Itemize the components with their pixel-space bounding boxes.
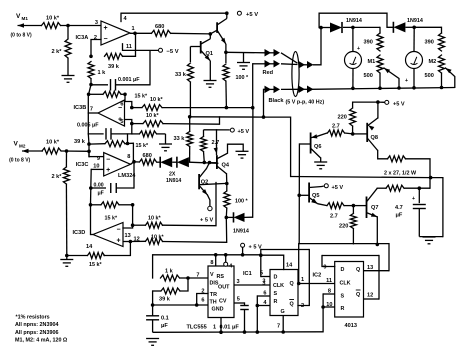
text IC2 Q <box>356 267 360 273</box>
svg-text:2 k*: 2 k* <box>52 49 63 55</box>
svg-text:100 *: 100 * <box>235 199 248 205</box>
text 555 TR <box>210 292 217 298</box>
svg-text:All pnps: 2N3906: All pnps: 2N3906 <box>15 330 58 336</box>
svg-text:−: − <box>106 157 110 164</box>
text Q6 <box>314 144 321 150</box>
svg-text:3: 3 <box>95 20 98 26</box>
text 15k* IC3D <box>105 216 118 222</box>
svg-text:Q: Q <box>290 281 294 287</box>
svg-text:11: 11 <box>126 44 132 50</box>
text Q4 <box>222 163 230 169</box>
wire diodes to node <box>189 161 219 165</box>
capacitor 0.01uF <box>240 303 249 332</box>
pin 13 label <box>125 233 131 239</box>
wire IC3C pin9 <box>87 142 104 156</box>
wire IC3A out <box>130 32 152 34</box>
wire 555 left vert upper <box>152 255 154 278</box>
pin6 wire IC1 <box>257 291 270 297</box>
transistor Q4 <box>210 130 227 184</box>
text 33k upper <box>175 72 187 78</box>
svg-text:S: S <box>341 294 345 300</box>
svg-text:2: 2 <box>201 289 204 295</box>
svg-text:V: V <box>210 272 214 278</box>
svg-text:2.7: 2.7 <box>330 214 338 220</box>
svg-text:TR: TR <box>210 292 217 298</box>
svg-text:0.005 μF: 0.005 μF <box>77 123 99 129</box>
pin9 wire IC2 <box>322 256 335 271</box>
text 555 GND <box>212 307 224 313</box>
transistor Q5 <box>309 183 322 204</box>
svg-text:IC1: IC1 <box>243 271 252 277</box>
wire Q8 collector <box>378 151 388 159</box>
svg-text:IC3B: IC3B <box>74 105 87 111</box>
svg-text:5: 5 <box>237 297 240 303</box>
wire 4.7 bottom <box>419 236 443 238</box>
transistor Q1 <box>201 39 211 61</box>
ic TLC555 box <box>208 266 234 318</box>
text Q5 <box>312 193 319 199</box>
text 14 <box>86 244 93 250</box>
svg-text:33 k: 33 k <box>175 72 187 78</box>
svg-text:CLK: CLK <box>340 281 351 287</box>
svg-text:μF: μF <box>396 213 403 219</box>
wire 39k riser <box>180 278 188 291</box>
wire pin6 rail <box>162 106 255 110</box>
resistor 39k (IC3C fb) <box>89 141 129 147</box>
node IC3A output <box>133 32 137 36</box>
pin1 stub 555 <box>213 318 221 333</box>
text 1N914 M1 <box>346 18 362 24</box>
svg-text:IC3C: IC3C <box>76 162 89 168</box>
text 15k* gnd <box>136 143 149 149</box>
wire pin13 line to corner <box>163 183 217 226</box>
resistor 10k* (pin6) <box>132 105 162 111</box>
text 0.01uF <box>220 325 240 331</box>
resistor 220 (Q8) <box>350 102 378 134</box>
text 2.7 Q8 <box>332 124 340 130</box>
capacitor 4.7uF <box>413 188 426 236</box>
text 500 M1 <box>364 73 373 79</box>
wire 33k chain node <box>188 115 265 119</box>
wire IC3D out <box>89 203 93 235</box>
pin14 wire IC1 <box>261 255 293 269</box>
ground (IC3D) <box>60 256 73 267</box>
pin 5 label <box>120 119 123 125</box>
resistor 680 (IC3C) <box>134 159 157 165</box>
pin1 wire IC1 <box>297 277 335 285</box>
arrows row1 <box>265 49 281 57</box>
wire Q6 emitter to 2.7 <box>317 133 328 137</box>
text 680 IC3C <box>143 153 152 159</box>
text 220 Q7 <box>339 224 348 230</box>
wire red row 1 <box>226 51 266 54</box>
svg-text:39 k: 39 k <box>108 64 120 70</box>
svg-text:1: 1 <box>213 325 216 331</box>
svg-text:15 k*: 15 k* <box>89 262 102 268</box>
svg-text:680: 680 <box>155 24 164 30</box>
svg-text:(0 to 8 V): (0 to 8 V) <box>11 33 32 39</box>
wire Q7 collector <box>377 187 386 189</box>
svg-text:8: 8 <box>328 289 331 295</box>
svg-text:2.7: 2.7 <box>212 140 220 146</box>
svg-text:10: 10 <box>93 164 99 170</box>
text IC1 CLK <box>273 283 284 289</box>
wire IC3B pin6 <box>125 94 134 109</box>
text IC3D <box>73 230 86 236</box>
text 500 M2 <box>425 73 434 79</box>
svg-text:+: + <box>103 25 107 32</box>
wire Q1 base to 33k <box>190 46 200 48</box>
wire Qbar to D loop <box>261 249 310 251</box>
bracket IC1 SR <box>255 296 259 332</box>
svg-text:220: 220 <box>339 224 348 230</box>
svg-text:G: G <box>281 309 285 315</box>
wire Q1riser top <box>0 0 1 1</box>
pin 9 label <box>97 156 100 162</box>
arrows row2 <box>265 60 281 68</box>
pot 500 (M1) <box>377 55 383 90</box>
text 390 M2 <box>425 40 434 46</box>
transistor Q3 (upper) <box>217 19 227 45</box>
pin12 wire IC2 <box>364 293 380 300</box>
text IC2 label <box>313 273 322 279</box>
text 10k* pin12 <box>151 235 164 241</box>
svg-text:0.00: 0.00 <box>94 182 104 188</box>
svg-text:4013: 4013 <box>345 323 357 329</box>
wire Q7 base <box>352 204 367 208</box>
wire VM2 pin9 riser <box>88 151 90 156</box>
ground (red row) <box>237 53 250 70</box>
pot wiper M1 <box>384 68 401 90</box>
text 2X 1N914 <box>166 172 181 185</box>
text IC1 G <box>281 309 285 315</box>
wire Q5 base <box>299 194 309 196</box>
text IC2 S <box>341 294 345 300</box>
wire IC3C pin10 <box>91 169 104 188</box>
svg-text:−5 V: −5 V <box>167 49 179 55</box>
resistor 15k* (IC3B fb) <box>89 91 127 97</box>
pin7 label 555 <box>196 273 199 279</box>
svg-text:*1% resistors: *1% resistors <box>16 314 50 320</box>
wire 39k fb right <box>125 134 133 162</box>
svg-text:Black: Black <box>269 98 285 104</box>
node IC3C out <box>131 160 136 164</box>
svg-text:S: S <box>274 291 278 297</box>
svg-text:−: − <box>103 36 107 43</box>
ground (VM1 divider) <box>62 76 75 83</box>
svg-text:+: + <box>405 78 408 84</box>
resistor 33k (upper) <box>187 47 193 117</box>
wire diode1 to M1 branch <box>343 26 380 30</box>
wire Q3 base <box>210 30 217 34</box>
pin5 stub 555 <box>234 297 245 304</box>
text IC3A <box>76 35 89 41</box>
text + M2 <box>405 78 408 84</box>
svg-text:M1, M2: 4 mA, 120 Ω: M1, M2: 4 mA, 120 Ω <box>15 338 68 344</box>
pin5 wire IC1 <box>259 250 270 277</box>
resistor 2k* (VM2) <box>63 151 69 256</box>
text IC3C <box>76 162 89 168</box>
svg-text:TH: TH <box>210 300 217 306</box>
transistor Q7 <box>367 188 378 218</box>
arrows row B right <box>299 86 314 94</box>
svg-text:390: 390 <box>364 40 373 46</box>
svg-text:500: 500 <box>364 73 373 79</box>
ic IC1 box <box>270 270 298 316</box>
wire IC3A pin11 to -5V <box>123 44 159 51</box>
ground (Q4) <box>236 151 249 158</box>
text IC1 Q <box>290 281 294 287</box>
terminal +5V (555) <box>241 243 262 255</box>
text 10k* VM2 <box>46 140 60 146</box>
pin2 wire IC1 <box>298 250 309 310</box>
resistor 220 (Q7) <box>350 206 356 245</box>
wire M2 to 390 <box>414 26 441 28</box>
svg-text:2 k*: 2 k* <box>52 174 63 180</box>
svg-text:+ 5 V: + 5 V <box>200 218 213 224</box>
wire TH line <box>153 303 208 307</box>
wire 2.7 to 220 node <box>345 132 355 136</box>
text IC1 D <box>274 275 278 281</box>
svg-text:+5 V: +5 V <box>246 12 258 18</box>
svg-text:Red: Red <box>263 70 274 76</box>
wire long output line <box>291 176 433 180</box>
pin 12 label <box>134 237 140 243</box>
svg-text:15 k*: 15 k* <box>135 94 148 100</box>
pot wiper M2 <box>446 68 455 87</box>
resistor 39k (IC3A fb) <box>89 53 122 59</box>
wire 555 left vert lower <box>151 291 155 316</box>
wire Q1 collector <box>209 34 211 39</box>
pin 4 label <box>124 16 128 22</box>
svg-text:10 k*: 10 k* <box>46 16 60 22</box>
text M2 <box>429 59 437 65</box>
wire M2 top lead <box>413 27 415 51</box>
arrows row3 <box>265 86 281 94</box>
text 555 DIS <box>210 281 219 287</box>
resistor 27 (top) <box>388 156 406 162</box>
wire VM1 node to IC3A pin3 <box>61 24 102 28</box>
resistor 2k* (VM1) <box>65 26 71 76</box>
svg-text:+5 V: +5 V <box>393 102 405 108</box>
svg-text:1N914: 1N914 <box>346 18 362 24</box>
svg-text:(0 to 8 V): (0 to 8 V) <box>9 157 30 163</box>
capacitor 0.001uF <box>91 79 150 91</box>
svg-text:0.01 μF: 0.01 μF <box>220 325 240 331</box>
wire IC3A pin4 to +5 rail <box>120 13 122 21</box>
svg-text:R: R <box>341 306 345 312</box>
svg-text:Q: Q <box>290 302 294 308</box>
terminal +5V top <box>237 11 258 18</box>
pin3 wire IC1 <box>262 281 270 287</box>
wire ic3c-cap to ic3d fb <box>90 188 92 205</box>
wire black row <box>264 89 267 117</box>
node VM1 input terminal <box>16 13 60 28</box>
wire rowA to diodes <box>314 26 323 65</box>
capacitor 0.1uF <box>146 316 159 333</box>
resistor 10k* (pin13) <box>133 222 163 228</box>
wire pin12 line <box>163 217 227 242</box>
wire out to right vert <box>431 178 443 237</box>
ground (4.7uF) <box>423 237 436 244</box>
terminal +5V (Q2) <box>200 206 213 223</box>
text LM324 <box>118 173 136 179</box>
text 4013 <box>345 323 357 329</box>
svg-text:+5 V: +5 V <box>238 129 250 135</box>
resistor 10k* (pin5) <box>132 121 163 127</box>
resistor 2.7 (Q7) <box>311 199 353 209</box>
text 555 V <box>210 272 214 278</box>
terminal +5V (Q5) <box>322 184 343 191</box>
wire Q2 base <box>199 183 227 184</box>
wire meter top bypass <box>319 13 393 27</box>
svg-text:1N914: 1N914 <box>407 18 423 24</box>
pin6 label 555 <box>201 298 204 304</box>
node VM2 divider <box>61 149 91 153</box>
node Q4 emitter-base junction <box>225 182 229 186</box>
terminal -5V <box>159 48 179 55</box>
resistor 15k* (IC3D fb) <box>91 202 135 208</box>
wire Q7 emitter down <box>376 217 380 246</box>
text 390 M1 <box>364 40 373 46</box>
svg-text:100 *: 100 * <box>236 75 249 81</box>
svg-text:0.1: 0.1 <box>161 316 169 322</box>
wire IC3B out <box>88 112 98 114</box>
resistor 27 (bottom) <box>386 185 404 191</box>
wire pin5 line <box>163 117 220 124</box>
svg-text:+: + <box>106 167 110 174</box>
resistor 10k* (pin12) <box>130 238 162 244</box>
svg-text:15 k*: 15 k* <box>105 216 118 222</box>
svg-text:IC3D: IC3D <box>73 230 86 236</box>
wire diode to riser <box>245 108 253 218</box>
svg-text:33 k: 33 k <box>174 136 186 142</box>
svg-text:+: + <box>116 238 120 245</box>
svg-text:7: 7 <box>277 324 280 330</box>
meter M1 <box>345 52 362 69</box>
svg-text:GND: GND <box>212 307 224 313</box>
text 1N914 mid <box>233 229 249 235</box>
text 0.005uF IC3B <box>77 123 99 129</box>
resistor 33k (mid) <box>187 117 193 162</box>
text TLC555 <box>187 325 207 331</box>
svg-text:15 k*: 15 k* <box>136 143 149 149</box>
pin11 label IC2 <box>326 278 332 284</box>
text 100* lower <box>235 199 248 205</box>
svg-text:11: 11 <box>326 278 332 284</box>
svg-text:7: 7 <box>90 107 93 113</box>
svg-text:500: 500 <box>425 73 434 79</box>
text 1N914 M2 <box>407 18 423 24</box>
svg-text:+: + <box>412 196 415 202</box>
resistor 1k (555) <box>161 275 180 281</box>
svg-text:Q6: Q6 <box>314 144 321 150</box>
pin 3 label <box>95 20 98 26</box>
wire Q3 emitter chain <box>224 44 228 54</box>
svg-text:−: − <box>116 227 120 234</box>
svg-text:R: R <box>274 299 278 305</box>
text 2k* VM2 <box>52 174 63 180</box>
resistor 100* (upper) <box>223 52 229 107</box>
text 0.1uF <box>161 316 169 330</box>
resistor 2.7 (mid) <box>201 130 207 163</box>
svg-text:10: 10 <box>326 302 332 308</box>
svg-text:12: 12 <box>367 293 373 299</box>
svg-text:13: 13 <box>125 233 131 239</box>
wire row1 into cable <box>281 53 298 63</box>
text IC1 label <box>243 271 252 277</box>
text 2.7 Q7 <box>330 214 338 220</box>
svg-text:+5 V: +5 V <box>332 185 344 191</box>
svg-text:CLK: CLK <box>273 283 284 289</box>
text 555 TH <box>210 300 217 306</box>
resistor 390 (M1) <box>377 27 383 51</box>
pin2 label 555 <box>201 289 204 295</box>
ground (15k) <box>159 134 172 151</box>
wire IC3A pin2 <box>91 40 101 57</box>
text 555 CV <box>219 298 227 304</box>
wire 680 to Q1 node <box>171 32 213 36</box>
svg-text:4.7: 4.7 <box>395 205 403 211</box>
wire Q1 emitter to gnd <box>209 61 211 80</box>
svg-text:+ 5 V: + 5 V <box>249 245 262 251</box>
wire Q1 riser <box>298 244 300 284</box>
wire 555 bottom rail <box>153 330 324 334</box>
svg-text:OUT: OUT <box>218 285 230 291</box>
wire Q5Q6 base line down <box>299 244 389 271</box>
transistor Q8 <box>353 100 380 150</box>
wire Q2 emitter term <box>208 195 210 206</box>
svg-text:10 k*: 10 k* <box>146 113 159 119</box>
text notes <box>15 314 68 343</box>
text 2x27 1/2W <box>384 171 417 177</box>
text 10k* pin6 <box>150 97 163 103</box>
wire 1k to DIS node <box>180 276 190 280</box>
text 10k* pin13 <box>148 216 161 222</box>
text + 4.7uF <box>395 196 415 219</box>
svg-text:1 k: 1 k <box>165 269 174 275</box>
svg-text:All npns: 2N3904: All npns: 2N3904 <box>15 322 58 328</box>
diode 2x1N914 a <box>157 157 173 168</box>
wire IC3B fb riser <box>87 93 91 114</box>
svg-text:0.001 μF: 0.001 μF <box>118 77 140 83</box>
svg-text:M1: M1 <box>22 16 29 21</box>
svg-text:μF: μF <box>98 191 104 197</box>
terminal +5V (Q8) <box>378 100 405 107</box>
wire row2 into cable <box>281 63 298 66</box>
text IC2 D <box>341 267 345 273</box>
wire 555 top rail <box>153 253 261 257</box>
pin 2 label <box>94 35 97 41</box>
pin 6 label <box>120 102 123 108</box>
svg-text:3: 3 <box>237 279 240 285</box>
resistor 15k* (IC3D gnd) <box>65 242 130 259</box>
svg-text:5: 5 <box>120 119 123 125</box>
text + M1 <box>357 46 360 52</box>
arrows row A right <box>299 61 314 69</box>
svg-text:IC2: IC2 <box>313 273 322 279</box>
svg-text:39 k: 39 k <box>159 297 171 303</box>
text Q7 <box>371 205 378 211</box>
wire row3 through cable <box>281 88 300 90</box>
wire meter bottom rail <box>311 88 455 90</box>
svg-text:Q7: Q7 <box>371 205 378 211</box>
text 555 OUT <box>218 285 230 291</box>
wire M1 top lead <box>352 27 354 51</box>
pin 10 label <box>93 164 99 170</box>
wire Q6 collector gnd <box>314 158 327 169</box>
svg-text:10 k*: 10 k* <box>148 216 161 222</box>
